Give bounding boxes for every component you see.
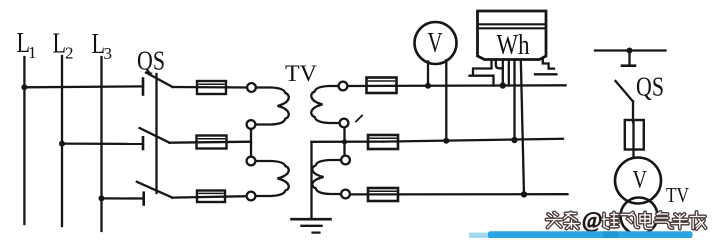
junction meter-line c [521, 191, 527, 197]
wire primary common bus [250, 129, 252, 157]
fuse FU1 phase A primary [197, 81, 226, 94]
terminal T2 primary [247, 120, 256, 129]
voltmeter PV [415, 22, 457, 64]
energy meter PJ box [478, 11, 547, 60]
terminal S2x secondary [341, 190, 350, 199]
ground [292, 219, 331, 232]
disconnector QS pole 2 contact [142, 137, 145, 149]
wire secondary link [343, 128, 345, 156]
wire blade to fuse [632, 102, 634, 123]
svg-text:V: V [633, 165, 648, 194]
svg-text:QS: QS [137, 46, 165, 76]
junction on L3 [99, 195, 105, 201]
fuse FU2 phase B primary [197, 136, 227, 149]
svg-text:1: 1 [28, 43, 37, 62]
junction voltmeter-line a [425, 83, 431, 89]
svg-text:L: L [53, 29, 67, 60]
wire L1 bus vertical [23, 57, 25, 224]
junction meter-line b [511, 137, 517, 143]
junction on L2 [59, 141, 65, 147]
junction link and line b [342, 139, 347, 144]
mark tick near S1x [356, 116, 362, 122]
watermark blue bar [469, 231, 693, 238]
winding TV secondary S2 [312, 160, 341, 194]
winding TV primary P1 [256, 88, 289, 125]
svg-text:QS: QS [636, 72, 664, 102]
wire secondary line a left [347, 84, 565, 87]
wire voltmeter lead right [445, 60, 447, 141]
junction on L1 [21, 84, 27, 90]
svg-text:2: 2 [65, 44, 74, 63]
disconnector QS pole 1 contact [142, 79, 145, 95]
node L2 label [53, 29, 74, 63]
svg-text:3: 3 [104, 44, 113, 63]
fuse FUb secondary [368, 135, 398, 149]
svg-text:TV: TV [666, 183, 689, 207]
wire right feeder [595, 49, 666, 51]
disconnector QS2 label [636, 72, 664, 102]
wire pole 3 out [172, 196, 246, 197]
disconnector QS pole 3 contact [142, 193, 145, 205]
disconnector QS2 contact [622, 64, 635, 67]
transformer TV2 secondary circle [621, 198, 658, 235]
terminal T1 primary [247, 83, 256, 92]
terminal S1x secondary [340, 119, 349, 128]
wire meter lead b [513, 60, 515, 141]
transformer TV label [285, 61, 317, 87]
disconnector QS pole 3 blade [137, 182, 173, 198]
winding TV primary P2 [256, 161, 289, 196]
disconnector QS pole 1 blade [146, 73, 173, 88]
svg-text:TV: TV [285, 61, 317, 87]
junction right feeder [627, 48, 633, 54]
winding TV secondary S1 [311, 86, 339, 123]
node L1 label [17, 28, 37, 62]
wire secondary line b left [312, 140, 384, 142]
wire secondary line c left [350, 193, 568, 195]
svg-text:@: @ [582, 207, 602, 232]
wire meter lead a [502, 60, 504, 86]
energy meter current hook right [535, 60, 556, 75]
wire secondary line b [383, 139, 563, 142]
wire meter lead c [521, 60, 524, 195]
wire branch phase B [62, 142, 143, 145]
terminal S2a secondary [341, 156, 350, 165]
junction voltmeter-line b [443, 138, 449, 144]
wire branch phase A [24, 85, 143, 88]
svg-text:V: V [428, 28, 443, 59]
wire voltmeter lead left [427, 62, 429, 86]
disconnector QS pole 2 blade [140, 128, 170, 143]
disconnector QS label [137, 46, 165, 76]
node L3 label [92, 29, 113, 63]
fuse FUa secondary [367, 78, 397, 94]
disconnector QS linkage bar [155, 74, 157, 193]
energy meter current hook left [470, 60, 503, 86]
wire meter lead a2 [508, 60, 510, 86]
fuse FUc secondary [368, 188, 398, 201]
terminal S1a secondary [339, 82, 348, 91]
wire right stub [628, 51, 630, 64]
fuse FU3 phase C primary [197, 191, 225, 203]
wire pole 1 out [173, 86, 248, 89]
watermark outlined text [547, 207, 706, 232]
wire branch phase C [102, 197, 144, 199]
wire L3 bus vertical [100, 57, 102, 231]
wire earthing bus [310, 142, 312, 219]
svg-text:Wh: Wh [497, 29, 530, 61]
fuse FU4 right [625, 120, 644, 150]
wire pole 2 out [170, 142, 252, 143]
energy meter Wh label [497, 29, 530, 61]
transformer TV2 voltmeter circle [615, 158, 661, 204]
terminal T3 primary [247, 157, 256, 166]
terminal T4 primary [247, 192, 256, 201]
wire L2 bus vertical [61, 56, 63, 226]
disconnector QS2 blade [616, 81, 634, 102]
transformer TV2 label [666, 183, 689, 207]
energy meter register lines [479, 24, 546, 28]
junction meter-line a [500, 82, 506, 88]
wire fuse through [632, 122, 634, 159]
